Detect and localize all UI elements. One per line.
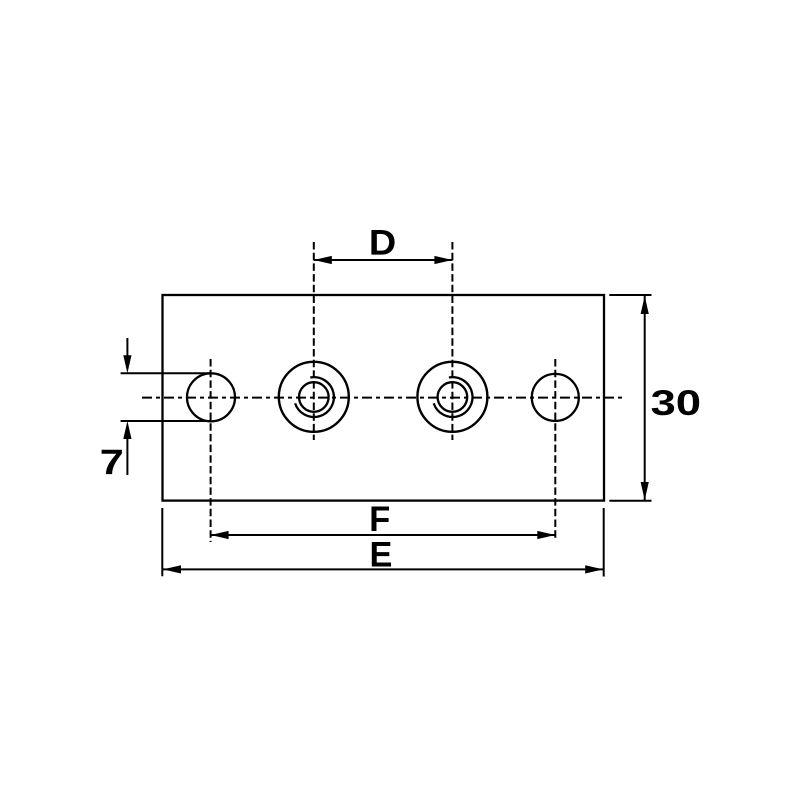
dimension E extension line left — [161, 508, 163, 576]
horizontal centerline — [142, 397, 625, 399]
dimension 7 label — [102, 450, 122, 474]
hole 2 thread arc — [295, 377, 334, 417]
dimension 30 label — [652, 390, 700, 415]
dimension 30 extension line top — [609, 294, 651, 296]
dimension D line — [314, 256, 453, 264]
dimension E label — [372, 542, 391, 567]
dimension E extension line right — [603, 508, 605, 577]
dimension D label — [371, 230, 394, 255]
hole 2 counterbore outer circle — [279, 362, 349, 432]
dimension 7 extension line bottom (tangent to hole 1 bottom) — [121, 420, 211, 422]
hole 3 thread arc — [434, 377, 473, 417]
centerline hole 1 — [210, 359, 212, 542]
centerline hole 2 — [313, 242, 315, 440]
dimension 7 lower arrow — [123, 421, 131, 475]
centerline hole 3 — [451, 242, 453, 440]
hole 3 counterbore outer circle — [417, 362, 487, 432]
dimension 7 upper arrow — [123, 338, 131, 373]
dimension 7 extension line top (tangent to hole 1 top) — [121, 372, 211, 374]
dimension E line — [163, 565, 603, 573]
dimension F label — [372, 507, 390, 532]
dimension 30 line — [641, 296, 649, 500]
hole 3 inner circle — [438, 382, 468, 412]
dimension 30 extension line bottom — [609, 500, 651, 502]
dimension F line — [211, 531, 556, 539]
hole 1 (plain drilled hole, left) — [187, 373, 235, 421]
plate outline — [163, 295, 605, 501]
centerline hole 4 — [554, 359, 556, 541]
hole 4 (plain drilled hole, right) — [532, 374, 579, 421]
hole 2 inner circle — [299, 382, 329, 412]
